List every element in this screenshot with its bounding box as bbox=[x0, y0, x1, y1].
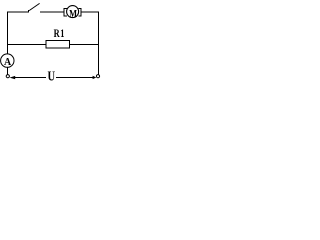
U arrow right head bbox=[93, 76, 97, 79]
motor right brush bracket bbox=[78, 9, 81, 16]
wire ammeter to terminal bbox=[6, 67, 8, 74]
wire right vertical bbox=[98, 11, 100, 75]
wire top-left horizontal bbox=[7, 11, 29, 13]
ammeter A circle bbox=[1, 54, 14, 67]
wire left vertical bbox=[6, 11, 8, 54]
wire switch to motor bbox=[40, 11, 64, 13]
wire middle branch right bbox=[70, 44, 99, 46]
switch lever bbox=[29, 3, 39, 10]
svg-text:U: U bbox=[48, 68, 56, 84]
motor M circle bbox=[67, 6, 79, 18]
wire motor to top-right corner bbox=[81, 11, 98, 13]
svg-text:M: M bbox=[69, 8, 77, 19]
motor left brush bracket bbox=[64, 9, 67, 16]
terminal right circle bbox=[96, 75, 99, 78]
terminal left circle bbox=[6, 75, 9, 78]
wire middle branch left bbox=[7, 44, 46, 46]
wire U arrow left shaft bbox=[15, 77, 47, 79]
switch contact tick bbox=[28, 10, 30, 13]
svg-text:A: A bbox=[4, 56, 12, 68]
svg-text:R1: R1 bbox=[54, 28, 65, 41]
U arrow left head bbox=[10, 76, 16, 79]
resistor R1 box bbox=[46, 41, 69, 48]
wire U arrow right shaft bbox=[56, 77, 93, 79]
